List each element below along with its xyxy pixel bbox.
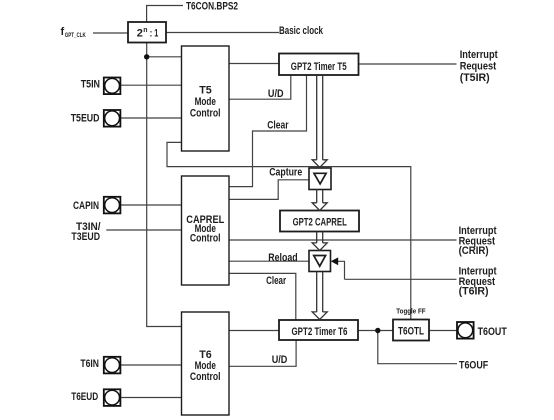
svg-text:T6CON.BPS2: T6CON.BPS2: [186, 1, 238, 13]
GPT2 CAPREL box: [280, 211, 359, 232]
pad T5EUD: [104, 110, 121, 127]
svg-text:GPT2 CAPREL: GPT2 CAPREL: [293, 216, 347, 228]
bus arrow capture gate to GPT2 CAPREL: [312, 190, 327, 211]
svg-text:Interrupt: Interrupt: [460, 49, 498, 61]
wire T5IN: [121, 84, 182, 86]
capture transfer triangle: [314, 173, 326, 184]
svg-text:Control: Control: [190, 371, 221, 383]
svg-text:T3EUD: T3EUD: [71, 231, 100, 243]
wire U/D T5: [229, 75, 291, 99]
wire reload trigger from T6 overflow: [338, 261, 345, 279]
svg-text:Clear: Clear: [267, 120, 289, 132]
svg-text:(T6IR): (T6IR): [459, 286, 489, 298]
T5 Mode Control box: [182, 46, 230, 151]
wire T6EUD: [121, 397, 182, 399]
wire Clear T6: [229, 273, 296, 319]
wire Reload: [229, 260, 309, 262]
wire capture trigger: [229, 180, 309, 200]
wire T6IN: [121, 364, 182, 366]
wire f_GPT_CLK to prescaler: [93, 32, 128, 34]
pad CAPIN: [104, 197, 121, 214]
svg-text:GPT2 Timer T6: GPT2 Timer T6: [292, 326, 348, 338]
bus arrow GPT2 CAPREL to reload gate: [312, 232, 327, 251]
wire CAPIN: [121, 204, 182, 206]
wire Clear T5 path: [229, 75, 307, 187]
svg-text:2: 2: [137, 28, 143, 40]
svg-text:Toggle FF: Toggle FF: [396, 307, 426, 316]
junction node below prescaler: [144, 54, 149, 59]
svg-text:T5EUD: T5EUD: [71, 112, 100, 124]
svg-text:(T5IR): (T5IR): [460, 72, 490, 84]
reload transfer triangle: [314, 256, 326, 267]
svg-text:Control: Control: [190, 232, 221, 244]
T6OTL toggle flip-flop box: [393, 320, 429, 341]
svg-text:Clear: Clear: [266, 275, 287, 287]
svg-text:: 1: : 1: [150, 28, 159, 40]
reload transfer gate box: [309, 251, 331, 272]
wire long vertical clock line to T6 Mode Control: [147, 57, 182, 327]
bus arrow T5 to capture gate: [312, 75, 327, 167]
wire T6OTL to T6OUT: [429, 330, 457, 332]
svg-text:T6OUT: T6OUT: [478, 326, 507, 338]
capture transfer gate box: [309, 168, 331, 190]
junction node at T6 overflow: [375, 328, 380, 333]
prescaler 2^n:1 box: [128, 22, 166, 43]
GPT2 Timer T6 box: [279, 320, 358, 340]
svg-text:Basic clock: Basic clock: [279, 25, 324, 37]
wire T5 Mode Control feedback from T6OTL: [167, 142, 411, 319]
svg-text:GPT_CLK: GPT_CLK: [65, 32, 86, 39]
wire U/D T6: [229, 340, 296, 366]
CAPREL Mode Control box: [182, 176, 230, 285]
svg-text:T6EUD: T6EUD: [71, 391, 98, 403]
wire T5EUD: [121, 117, 182, 119]
svg-text:T6OUF: T6OUF: [459, 359, 488, 371]
wire Basic clock: [166, 32, 279, 34]
pad T5IN: [104, 78, 121, 95]
svg-text:Capture: Capture: [269, 167, 302, 179]
svg-text:(CRIR): (CRIR): [459, 245, 489, 257]
wire prescaler down to junction and to T5 Mode Control: [147, 43, 182, 57]
wire T6 Mode Control to GPT2 Timer T6: [229, 330, 279, 332]
svg-text:Mode: Mode: [195, 96, 216, 108]
pad T6OUT: [457, 322, 474, 339]
svg-text:T6OTL: T6OTL: [398, 326, 424, 338]
svg-text:T6IN: T6IN: [80, 358, 99, 370]
svg-text:Request: Request: [460, 61, 497, 73]
bus arrow reload gate to GPT2 Timer T6: [312, 272, 327, 320]
wire T3IN/T3EUD: [106, 229, 181, 231]
wire interrupt request CRIR: [229, 239, 457, 241]
wire interrupt request T5IR: [359, 63, 457, 65]
svg-text:Reload: Reload: [268, 252, 297, 264]
svg-text:GPT2 Timer T5: GPT2 Timer T5: [291, 61, 347, 73]
T6 Mode Control box: [182, 312, 230, 415]
wire interrupt request T6IR: [345, 278, 457, 280]
svg-text:T5: T5: [199, 84, 212, 96]
svg-text:U/D: U/D: [272, 354, 288, 366]
solid arrowhead into reload gate: [331, 257, 338, 265]
svg-text:Control: Control: [190, 108, 221, 120]
GPT2 Timer T5 box: [279, 54, 359, 76]
wire GPT2 Timer T6 to T6OTL: [358, 330, 393, 332]
svg-text:CAPIN: CAPIN: [73, 200, 99, 212]
wire T6OUF: [378, 331, 457, 364]
svg-text:T5IN: T5IN: [81, 78, 100, 90]
pad T6IN: [104, 357, 121, 374]
svg-text:n: n: [143, 27, 147, 34]
pad T6EUD: [104, 389, 121, 406]
svg-text:U/D: U/D: [268, 88, 284, 100]
wire T6CON.BPS2: [147, 6, 183, 23]
wire T5 Mode Control to GPT2 Timer T5: [229, 63, 279, 65]
